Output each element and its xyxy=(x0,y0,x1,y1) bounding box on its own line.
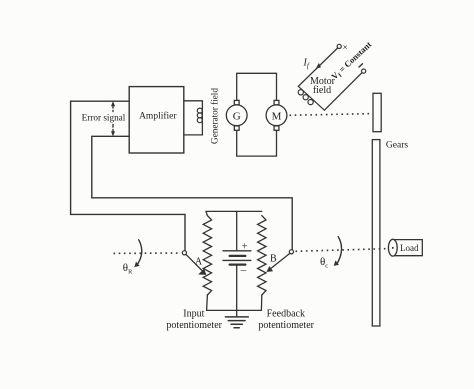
svg-text:+: + xyxy=(242,242,248,253)
wire motor field to - terminal xyxy=(324,73,362,111)
svg-text:G: G xyxy=(233,110,241,122)
potentiometer bottom rail wire xyxy=(207,309,262,311)
battery B1 xyxy=(223,211,251,317)
inductor L1 generator field coil xyxy=(197,108,202,123)
wire battery bottom to ground xyxy=(236,265,238,317)
generator G machine symbol xyxy=(226,100,247,130)
svg-text:A: A xyxy=(195,257,203,268)
gear 2 (large, load side) xyxy=(372,140,380,326)
svg-text:potentiometer: potentiometer xyxy=(166,320,222,331)
dotted motor shaft from M to gears xyxy=(290,114,373,116)
wire feedback pot bottom stub xyxy=(260,295,262,310)
svg-text:Feedback: Feedback xyxy=(267,309,305,320)
label: minus sign xyxy=(359,64,363,67)
wire input pot top stub xyxy=(206,211,207,215)
battery plate short thick xyxy=(230,255,246,257)
terminal - (minus) of motor field supply xyxy=(362,69,366,73)
svg-text:Gears: Gears xyxy=(386,140,408,150)
svg-text:θc: θc xyxy=(320,256,328,270)
wire amplifier output to generator field coil xyxy=(184,101,203,135)
svg-text:θR: θR xyxy=(123,262,133,276)
wire motor field from + terminal (If branch) xyxy=(298,48,337,86)
battery plate long + xyxy=(223,250,251,252)
wire input pot bottom stub xyxy=(206,295,209,310)
dotted output shaft (theta c) from B to load xyxy=(296,249,389,252)
svg-text:Vf = Constant: Vf = Constant xyxy=(329,39,375,83)
dotted reference input shaft (theta R) xyxy=(114,252,181,254)
op-amp / amplifier block U1 xyxy=(129,87,184,153)
svg-text:+: + xyxy=(340,42,352,54)
node B wiper contact xyxy=(289,250,293,254)
node A wiper contact xyxy=(182,251,186,255)
svg-text:Input: Input xyxy=(183,309,204,320)
svg-text:Generator field: Generator field xyxy=(210,88,220,144)
svg-text:Amplifier: Amplifier xyxy=(139,110,177,121)
wire armature loop top (G to M) xyxy=(237,73,277,100)
terminal + (plus) of motor field supply xyxy=(337,44,341,48)
rotation arc theta c xyxy=(334,237,342,266)
motor M machine symbol xyxy=(266,100,287,130)
resistor feedback potentiometer element xyxy=(258,216,266,295)
svg-text:field: field xyxy=(313,85,331,96)
svg-text:M: M xyxy=(272,110,282,122)
wiper arm A with arrowhead xyxy=(186,254,206,275)
arrowhead If current direction xyxy=(316,63,321,69)
error signal dashed double arrow xyxy=(111,101,115,137)
wiper arm B with arrowhead xyxy=(267,253,290,272)
rotation arc theta R xyxy=(134,240,141,267)
ground symbol xyxy=(225,317,248,328)
potentiometer top rail wire xyxy=(206,210,262,212)
wire armature loop bottom (G to M) xyxy=(237,130,277,156)
resistor input potentiometer element xyxy=(203,216,211,295)
svg-text:If: If xyxy=(303,58,310,71)
svg-text:–: – xyxy=(240,264,247,276)
svg-text:B: B xyxy=(270,254,277,265)
wire from amplifier bottom-left input to feedback potentiometer wiper B xyxy=(92,136,292,249)
inductor motor field coil xyxy=(298,86,324,110)
wire battery top xyxy=(236,211,238,250)
svg-text:potentiometer: potentiometer xyxy=(258,320,314,331)
gear 1 (small, motor side) xyxy=(373,93,381,131)
wire from amplifier top-left input to input potentiometer wiper A xyxy=(71,101,185,250)
battery plate long xyxy=(223,259,251,261)
battery plate short thick 2 xyxy=(230,264,246,266)
load cylinder xyxy=(388,239,422,256)
svg-text:Error signal: Error signal xyxy=(82,113,126,123)
svg-text:Load: Load xyxy=(400,243,419,253)
